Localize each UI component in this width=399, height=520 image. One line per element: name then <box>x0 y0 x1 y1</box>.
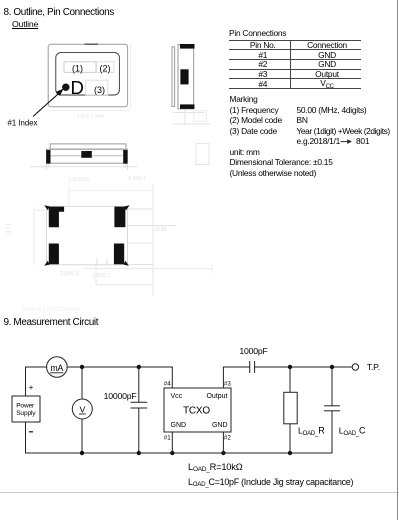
wire: output rail to T.P. <box>255 366 353 368</box>
node: top rail / voltmeter branch <box>80 365 84 369</box>
faint dim extension right of top view <box>130 44 132 108</box>
heading 9 <box>4 318 99 328</box>
page edge rules <box>0 492 399 493</box>
svg-text:LOAD_R: LOAD_R <box>298 426 325 438</box>
svg-text:TCXO: TCXO <box>183 406 210 417</box>
Pin Connections table title <box>229 29 286 37</box>
wire: bottom rail <box>26 452 333 454</box>
side view faint dimension lines <box>30 166 137 168</box>
svg-text:#3: #3 <box>224 381 231 388</box>
#1 index leader arrow <box>33 92 61 117</box>
svg-text:V: V <box>80 404 86 414</box>
wire: TCXO pin 3 to output rail <box>222 367 224 388</box>
node: top rail / bypass cap branch <box>137 365 141 369</box>
svg-text:Supply: Supply <box>16 410 36 417</box>
minus terminal label <box>30 431 33 433</box>
side view right pad <box>123 150 127 164</box>
svg-text:GND: GND <box>171 422 187 429</box>
package top view inner lid outline <box>56 53 120 95</box>
right side view faint dim lines <box>173 112 204 114</box>
TCXO box U1 <box>164 388 231 432</box>
svg-text:T.P.: T.P. <box>367 362 380 372</box>
ammeter mA <box>47 357 68 378</box>
marking area box 1 <box>64 62 96 73</box>
wire: voltmeter branch lower <box>81 419 83 453</box>
bottom view faint dim lines <box>33 207 35 265</box>
bottom view pad #1 (top-left, L shape) <box>49 207 64 228</box>
package top view outer body <box>48 44 127 107</box>
wire: power supply + to ammeter <box>25 367 27 396</box>
right side view body <box>178 45 194 109</box>
svg-text:#1: #1 <box>164 435 171 442</box>
right side view center pad <box>180 69 188 84</box>
bottom view pad #4 (bottom-left) <box>49 244 59 265</box>
#1 index dot <box>62 84 69 91</box>
svg-text:GND: GND <box>212 422 228 429</box>
svg-text:10000pF: 10000pF <box>104 391 137 401</box>
side view interior seam line <box>51 155 124 157</box>
test point terminal T.P. <box>352 364 358 370</box>
node: bottom rail load resistor <box>288 451 292 455</box>
load capacitor LOAD_C <box>331 367 333 406</box>
bottom view body outline <box>47 206 128 264</box>
svg-text:Vcc: Vcc <box>171 393 183 400</box>
svg-text:1000pF: 1000pF <box>239 346 267 356</box>
capacitor 1000pF (series) <box>249 362 251 373</box>
node: bottom rail bypass cap <box>137 451 141 455</box>
table text <box>232 41 294 49</box>
bottom view pad #3 (bottom-right) <box>114 244 124 265</box>
wire: TCXO pin 1 <box>171 432 173 453</box>
node: output rail load resistor <box>288 365 292 369</box>
right side view top pad <box>180 44 195 49</box>
side view center pad <box>81 151 92 158</box>
node: output rail load cap <box>330 365 334 369</box>
svg-text:mA: mA <box>50 363 63 373</box>
svg-text:Output: Output <box>206 393 227 400</box>
power supply box <box>12 396 40 422</box>
right side view lid edge <box>172 47 175 107</box>
wire: TCXO pin 2 <box>222 432 224 453</box>
load resistor LOAD_R <box>289 367 291 392</box>
wire: top rail ammeter to TCXO Vcc <box>67 366 172 368</box>
wire: voltmeter branch upper <box>81 367 83 399</box>
wire: power supply - to bottom rail <box>25 422 27 453</box>
long arrow in e.g. date code line <box>341 141 350 143</box>
side view left pad <box>46 150 50 164</box>
node: bottom rail voltmeter <box>80 451 84 455</box>
marking area box 3 <box>86 80 108 95</box>
Outline subheading <box>12 20 38 29</box>
svg-text:#2: #2 <box>224 435 231 442</box>
marking area box 2 <box>97 62 115 73</box>
circuit notes <box>188 463 242 472</box>
right side view bottom pad <box>180 104 195 109</box>
bottom view pad #2 (top-right) <box>114 207 125 228</box>
side view body <box>47 149 128 163</box>
marking block <box>230 95 258 103</box>
node: bottom rail TCXO GND #2 <box>221 451 225 455</box>
package top view lid seam tick <box>85 43 99 45</box>
voltmeter V <box>72 399 92 419</box>
svg-text:LOAD_C: LOAD_C <box>339 426 366 438</box>
svg-text:+: + <box>29 383 34 392</box>
wire: TCXO pin 4 <box>171 367 173 388</box>
table lines <box>229 40 362 41</box>
svg-text:#4: #4 <box>164 381 171 388</box>
side view lid <box>50 144 126 149</box>
faint dim line below bottom view <box>82 268 212 270</box>
capacitor 10000pF <box>138 367 140 402</box>
node: bottom rail TCXO GND #1 <box>170 451 174 455</box>
heading 8 <box>4 8 114 18</box>
svg-text:Power: Power <box>16 402 35 409</box>
